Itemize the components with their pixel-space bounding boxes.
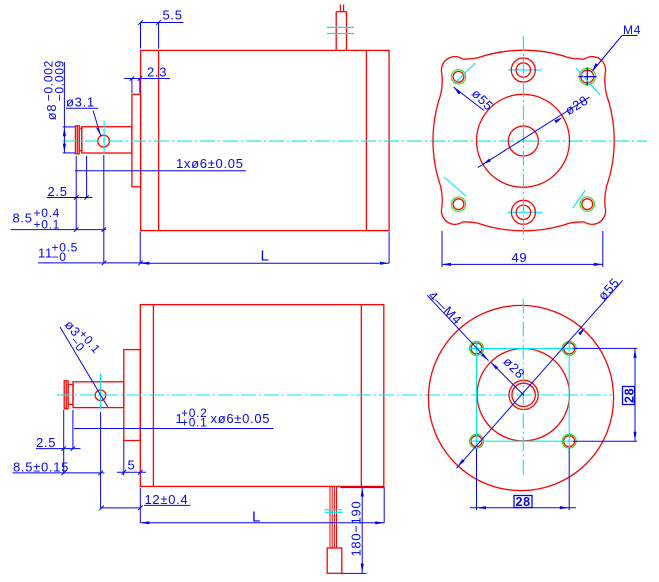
svg-text:4—M4: 4—M4 <box>425 288 465 328</box>
label 4-M4 with leader <box>425 288 465 328</box>
dimension diameter 8 with tolerances (rotated) <box>42 60 67 120</box>
rear end-cap line <box>365 50 367 230</box>
svg-text:L: L <box>261 248 270 265</box>
flange outline (wavy square) <box>433 50 614 231</box>
dimension diameter 28 (flange view) <box>478 97 590 168</box>
front end-cap line <box>158 50 160 230</box>
svg-text:ø3.1: ø3.1 <box>66 95 95 110</box>
svg-text:2.5: 2.5 <box>48 184 68 199</box>
bolt square cyan lines <box>469 342 578 449</box>
shaft end collar (bottom view) <box>64 381 68 409</box>
bolt circle tangent mark bottom-left <box>444 177 466 196</box>
svg-text:ø55: ø55 <box>595 275 623 303</box>
shaft end collar <box>75 126 79 154</box>
svg-text:49: 49 <box>512 250 528 265</box>
wire break marks (bottom view) <box>325 510 343 513</box>
dimension diameter 55 (flange view) <box>454 87 485 111</box>
svg-text:28: 28 <box>516 495 531 509</box>
svg-text:8.5: 8.5 <box>13 210 33 225</box>
svg-text:−0: −0 <box>52 250 67 264</box>
connector (bottom view) <box>327 548 342 573</box>
svg-text:5: 5 <box>128 458 136 473</box>
dimension 2.3 <box>124 76 170 93</box>
boss crosshair ticks <box>508 70 543 212</box>
hole centerline vertical (bottom view) <box>100 374 102 409</box>
leader line for 1x diameter 6 <box>75 170 246 172</box>
collar mid line (bottom view) <box>65 381 67 409</box>
label diameter 3 +0.1 -0 (rotated leader) <box>57 315 103 364</box>
rear center hole outer <box>509 380 538 409</box>
rear hole top-left <box>470 341 484 355</box>
dimension line for diameter 8 <box>63 62 75 153</box>
center shaft hole <box>508 126 538 156</box>
svg-text:M4: M4 <box>623 23 641 37</box>
bolt circle tangent mark bottom-right <box>573 190 586 208</box>
svg-text:+0.1: +0.1 <box>181 416 208 430</box>
svg-text:2.3: 2.3 <box>147 65 167 80</box>
shaft (bottom side view) <box>73 382 124 408</box>
centerline (top side view) <box>62 140 647 142</box>
wire break marks (top view) <box>327 27 354 33</box>
rear center hole inner <box>512 383 535 406</box>
motor body outline (bottom side view) <box>140 305 383 487</box>
rear hole bottom-right <box>562 434 576 448</box>
shaft (top side view) <box>82 127 132 153</box>
dimension L (bottom view) <box>140 488 384 523</box>
mounting flange (top side view) <box>132 94 141 187</box>
leader line for diameter 3 <box>60 327 108 407</box>
dimension 11 +0.5 -0 <box>38 261 147 266</box>
dimension 5.5 <box>138 20 183 48</box>
top boss outer <box>511 58 535 82</box>
corner hole bottom-left <box>451 197 465 211</box>
motor body outline (top side view) <box>141 50 390 230</box>
svg-text:1xø6±0.05: 1xø6±0.05 <box>176 156 244 171</box>
rear hole bottom-left <box>470 434 484 448</box>
svg-text:+0.1: +0.1 <box>34 218 61 232</box>
boss circle diameter 28 (pilot) <box>477 94 570 187</box>
svg-text:ø28: ø28 <box>500 354 528 382</box>
bottom boss hole <box>516 205 530 219</box>
corner hole top-left <box>451 70 465 84</box>
rear boss circle diameter 28 <box>477 349 569 441</box>
wires (bottom view) <box>330 486 337 548</box>
svg-text:ø8: ø8 <box>44 104 59 121</box>
dimension 28 (bottom, boxed) <box>470 449 576 511</box>
collar mid line <box>76 126 78 154</box>
dimension 28 (right side, boxed) <box>573 348 637 441</box>
svg-text:xø6±0.05: xø6±0.05 <box>211 411 271 426</box>
dimension 5 (flange thickness bottom view) <box>117 441 146 476</box>
centerline vertical (rear view) <box>522 299 524 478</box>
corner hole bottom-right <box>580 197 594 211</box>
cross hole in shaft <box>98 135 110 147</box>
rear end-cap line (bottom view) <box>360 305 362 487</box>
svg-text:2.5: 2.5 <box>36 435 56 450</box>
svg-text:180−190: 180−190 <box>349 501 364 557</box>
dimension 180-190 (wire length) <box>341 486 385 573</box>
svg-text:5.5: 5.5 <box>163 8 183 23</box>
bolt circle tangent mark top-right <box>576 68 600 95</box>
corner hole top-right (M4 tapped) <box>579 68 595 84</box>
centerline vertical (flange view) <box>522 36 524 240</box>
svg-text:8.5±0.15: 8.5±0.15 <box>13 459 69 474</box>
rear cover circle diameter 55 <box>428 305 613 490</box>
leader line for 1x diameter 6 (bottom view) <box>74 428 273 430</box>
top boss hole <box>516 63 530 77</box>
dimension 2.5 (top view) <box>47 156 93 230</box>
M4 cross mark <box>579 68 597 86</box>
terminal pins <box>340 5 343 12</box>
bottom boss outer <box>511 200 535 224</box>
terminal housing (top) <box>336 12 346 51</box>
bolt circle tangent mark top-left <box>454 63 475 83</box>
svg-text:12±0.4: 12±0.4 <box>145 492 189 507</box>
dimension 49 <box>442 231 603 267</box>
dimension 12 plus-minus 0.4 <box>99 505 190 510</box>
rear hole top-right <box>562 341 576 355</box>
dimension diameter 28 (rear view) <box>491 362 524 395</box>
front end-cap line (bottom view) <box>152 305 154 487</box>
cross hole in shaft (bottom view) <box>95 390 106 401</box>
dimension diameter 55 (rear view) <box>457 280 623 468</box>
svg-text:ø55: ø55 <box>469 86 497 114</box>
dimension 8.5 +0.4 +0.1 <box>11 155 107 263</box>
dimension 2.5 (bottom view) <box>36 410 81 473</box>
svg-text:L: L <box>252 509 261 526</box>
mounting flange (bottom side view) <box>124 350 141 441</box>
dimension L (top view) <box>140 232 389 263</box>
shaft groove (bottom view) <box>68 385 73 405</box>
hole centerline vertical (top view) <box>103 121 105 153</box>
svg-text:28: 28 <box>623 388 637 403</box>
centerline (bottom side view) <box>57 394 612 396</box>
svg-text:ø28: ø28 <box>562 92 591 118</box>
dimension 8.5 plus-minus 0.15 <box>13 412 105 509</box>
shaft groove <box>79 128 82 150</box>
